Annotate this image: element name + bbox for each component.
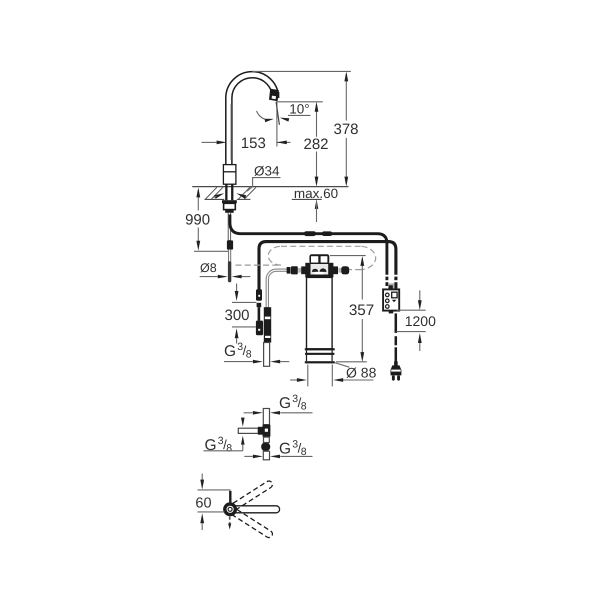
control cable faucet to box — [230, 215, 387, 287]
dimension 10 deg leader — [288, 114, 311, 116]
dimension 282 line — [316, 105, 318, 137]
dimension 357 tick top — [330, 255, 366, 257]
dimension G38 bottom detail arrows — [253, 455, 263, 459]
control box bottom tab — [389, 311, 394, 314]
svg-text:10°: 10° — [289, 102, 309, 117]
control box grey cable gap — [388, 283, 394, 289]
dimension 1200 tick top — [397, 309, 426, 311]
dimension dia34 arrow left — [214, 193, 224, 199]
dimension dia88 arrow right — [333, 378, 343, 382]
control box top tab — [389, 285, 393, 289]
valve hose to box — [259, 242, 396, 291]
control box led 3 — [386, 305, 390, 309]
valve outlet pipe — [264, 343, 270, 367]
svg-text:max.60: max.60 — [294, 186, 338, 201]
control box body — [383, 289, 399, 310]
countertop bottom line far right — [292, 198, 322, 200]
dimension 153 arrow right — [277, 141, 287, 145]
control box button — [392, 292, 397, 298]
control box led 2 — [386, 299, 390, 303]
dimension dia88 leader diag — [335, 363, 350, 368]
dimension 10 deg arrow left — [257, 111, 265, 119]
dimension 1200 tick bottom — [397, 331, 426, 333]
countertop bottom line right — [237, 198, 251, 200]
extension line faucet top — [252, 70, 351, 72]
dimension 1200 arrow top — [419, 290, 421, 300]
svg-text:153: 153 — [241, 135, 266, 152]
svg-text:Ø34: Ø34 — [254, 164, 280, 179]
svg-text:282: 282 — [303, 136, 328, 153]
svg-text:60: 60 — [195, 495, 211, 511]
angle reference line — [276, 102, 278, 147]
dimension 300 arrow top — [236, 284, 238, 292]
dimension 990 tick — [194, 250, 230, 252]
dimension dia8 arrow right — [232, 275, 242, 279]
countertop bottom line left — [205, 198, 225, 200]
power plug — [391, 361, 402, 380]
lever pivot ring — [225, 504, 236, 515]
faucet spout gooseneck — [226, 72, 279, 166]
dimension 378 arrow top — [344, 71, 348, 81]
lever handle dashed down — [232, 509, 273, 538]
countertop hatching right — [239, 187, 251, 199]
filter fitting right — [333, 266, 349, 274]
dimension 357 arrow top — [360, 256, 364, 266]
lever handle dashed up — [232, 481, 273, 510]
water stream line — [276, 102, 279, 125]
dimension G38 top detail arrows — [253, 411, 263, 415]
dimension 300 tick top — [232, 301, 256, 303]
svg-text:378: 378 — [333, 121, 358, 138]
lever handle solid — [234, 506, 280, 513]
svg-text:Ø 88: Ø 88 — [346, 365, 377, 381]
dimension 60 arrow top — [201, 474, 203, 481]
control box led 1 — [386, 293, 390, 297]
dimension 60 tick bottom — [198, 511, 225, 513]
dimension 1200 arrow bottom — [418, 333, 422, 343]
dimension dia88 ext right — [331, 365, 333, 387]
dimension 282 arrow top — [315, 102, 319, 112]
dimension 300 arrow bottom — [235, 328, 239, 338]
power cable — [395, 313, 398, 361]
dimension G38 valve line — [224, 361, 253, 363]
countertop hatching left — [206, 187, 218, 199]
filter inlet hose — [267, 270, 287, 308]
detail T side pipe — [238, 428, 258, 433]
detail ball nut — [261, 442, 270, 451]
detail T fitting — [258, 424, 271, 437]
svg-text:990: 990 — [185, 211, 210, 228]
filter fitting left — [287, 266, 306, 274]
angle valve body — [264, 307, 271, 342]
faucet spout nozzle — [269, 89, 279, 102]
dimension G38 valve arrow left — [253, 360, 263, 364]
dimension 60 arrow bottom — [200, 513, 204, 523]
svg-text:1200: 1200 — [405, 313, 436, 329]
svg-text:357: 357 — [349, 302, 374, 319]
filter body cylinder — [305, 277, 335, 363]
dimension dia88 ext left — [307, 365, 309, 387]
mounting shank — [222, 184, 237, 213]
filter head cap — [309, 254, 329, 263]
extension line spout outlet — [276, 101, 323, 103]
faucet base body — [223, 165, 236, 185]
dimension dia34 arrow left tail — [214, 196, 217, 197]
dimension 300 tick bottom — [232, 326, 256, 328]
dimension G38 valve arrow right — [270, 360, 280, 364]
control cable connector A — [304, 231, 316, 236]
dimension 378 line — [345, 74, 347, 121]
dimension dia8 line — [200, 276, 218, 278]
supply hose upper — [228, 213, 231, 241]
dimension dia88 arrow left — [297, 378, 307, 382]
supply hose connector — [227, 240, 233, 249]
dimension dia34 leader — [247, 178, 281, 192]
dimension 153 line — [202, 141, 217, 143]
dimension G38 bottom detail line — [244, 455, 253, 457]
detail T pipe upper — [263, 409, 269, 425]
dimension 10 deg arrow right — [280, 118, 290, 122]
dimension G38 top detail line — [244, 412, 253, 414]
dimension G38 side detail arrows — [241, 418, 245, 427]
svg-text:Ø8: Ø8 — [200, 261, 217, 275]
lever bottom dashed stub — [229, 517, 231, 525]
valve top connector — [256, 289, 263, 335]
dimension 378 arrow bottom — [344, 177, 348, 187]
dimension G38 side detail underline — [204, 450, 243, 452]
dimension 990 arrow bottom — [196, 241, 200, 251]
dimension 153 arrow left — [217, 141, 227, 145]
countertop top line — [192, 186, 348, 188]
dimension 357 arrow bottom — [360, 352, 364, 362]
filter head body — [306, 263, 333, 277]
dimension dia88 line — [290, 379, 297, 381]
dimension G38 side detail vline — [242, 418, 244, 424]
supply hose lower — [228, 250, 231, 263]
dimension max60 arrow up — [315, 199, 319, 209]
control box mark — [392, 300, 397, 303]
dimension 990 arrow top — [196, 187, 200, 197]
lever top stub — [229, 491, 231, 503]
dimension 282 arrow bottom — [315, 177, 319, 187]
hose centerline dashed loop — [236, 246, 376, 269]
dimension 990 line — [197, 191, 199, 211]
svg-text:300: 300 — [224, 307, 249, 324]
detail T pipe lower — [263, 451, 269, 460]
dimension 357 tick bottom — [336, 361, 367, 363]
dimension dia34 arrow right — [236, 193, 246, 199]
dimension 60 tick top — [198, 489, 231, 491]
dimension 357 line — [361, 259, 363, 300]
dimension dia8 arrow left — [218, 275, 228, 279]
control cable connector B — [322, 231, 333, 236]
